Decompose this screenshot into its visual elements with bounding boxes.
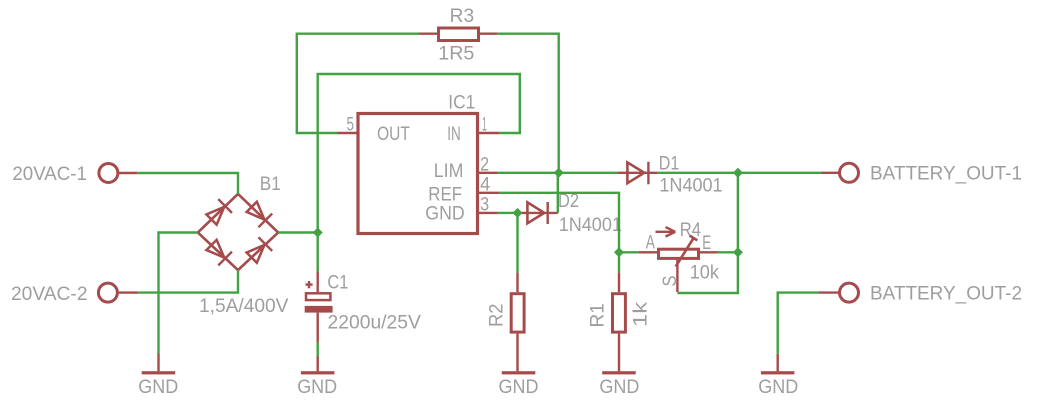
wire IN loop to bridge output <box>318 74 520 272</box>
svg-text:C1: C1 <box>327 273 348 294</box>
svg-text:LIM: LIM <box>434 161 464 182</box>
svg-text:GND: GND <box>499 377 539 398</box>
capacitor C1 plus sign <box>306 281 313 288</box>
pin stub C1 bottom <box>317 313 319 342</box>
wire BATTERY_OUT-2 to GND <box>778 293 819 354</box>
diode D1 triangle <box>627 162 644 183</box>
potentiometer R4 arrow <box>656 231 674 233</box>
pin stub R1 bottom <box>618 334 620 372</box>
pin stub R3 right <box>480 33 497 35</box>
node junction REF/R4-A/R1 <box>614 247 624 257</box>
pin stub R4 S wiper <box>676 260 678 292</box>
wire LIM to D1 <box>497 172 617 174</box>
pin stub BATTERY_OUT-1 <box>821 172 839 174</box>
diode D2 cathode bar <box>547 202 549 224</box>
pin stub IC1 pin4 REF <box>479 192 500 194</box>
ground symbol 3 bar <box>502 371 536 374</box>
pin stub IC1 pin3 GND <box>479 212 498 214</box>
svg-text:GND: GND <box>425 204 464 225</box>
svg-text:BATTERY_OUT-2: BATTERY_OUT-2 <box>870 283 1022 304</box>
svg-text:R1: R1 <box>588 303 609 327</box>
ground symbol 1 stub <box>157 354 159 372</box>
svg-text:E: E <box>702 233 711 254</box>
node junction LIM/R3/D1/D2 <box>554 168 564 178</box>
svg-text:IN: IN <box>447 124 461 145</box>
diode D1 cathode bar <box>647 162 649 185</box>
pin stub 20VAC-1 <box>119 172 137 174</box>
node junction R4-E/S <box>733 247 743 257</box>
bridge B1 diode bottom-right <box>245 237 272 264</box>
pin stub R2 top <box>516 273 518 293</box>
diode D2 wire <box>521 212 558 214</box>
capacitor C1 top plate <box>306 293 330 300</box>
wire R3 loop left <box>297 34 419 133</box>
bridge B1 diode top-right <box>245 200 272 227</box>
ground symbol 1 bar <box>142 371 176 374</box>
bridge B1 diode bottom-left <box>205 238 232 265</box>
connector pad BATTERY_OUT-2 <box>840 283 859 302</box>
wire REF to R4 A node <box>499 193 619 253</box>
wire bridge output to node <box>278 231 318 233</box>
diode D1 wire <box>617 172 657 174</box>
ground symbol 2 bar <box>301 371 335 374</box>
svg-text:20VAC-1: 20VAC-1 <box>12 164 87 185</box>
connector pad 20VAC-1 <box>99 164 118 183</box>
node junction bridge/IN/C1 <box>313 227 323 237</box>
svg-text:1N4001: 1N4001 <box>659 175 722 196</box>
capacitor C1 bottom plate <box>305 306 333 313</box>
pin stub 20VAC-2 <box>119 291 139 293</box>
node junction D1 output <box>733 168 743 178</box>
wire node to R2 <box>516 213 518 273</box>
potentiometer R4 slot tick <box>690 236 698 241</box>
svg-text:2200u/25V: 2200u/25V <box>328 312 422 333</box>
potentiometer R4 body <box>659 249 699 258</box>
pin stub R3 left <box>419 33 437 35</box>
pin stub R4 A <box>638 251 657 253</box>
svg-text:GND: GND <box>758 377 798 398</box>
ground symbol 5 stub <box>777 354 779 372</box>
bridge B1 diode top-left <box>205 199 232 226</box>
svg-text:R2: R2 <box>487 304 508 328</box>
pin stub IC1 pin2 LIM <box>479 172 498 174</box>
svg-text:R3: R3 <box>450 6 474 27</box>
svg-text:1R5: 1R5 <box>438 44 474 65</box>
wire node to R4 A <box>619 251 638 253</box>
svg-text:D1: D1 <box>659 154 680 175</box>
wire 20VAC-2 to bridge bottom <box>138 270 238 293</box>
svg-text:B1: B1 <box>260 174 281 195</box>
pin stub IC1 pin1 IN <box>479 132 500 134</box>
wire node to R4 E column <box>737 173 739 253</box>
svg-text:GND: GND <box>138 377 178 398</box>
svg-text:OUT: OUT <box>377 124 410 145</box>
pin stub C1 top <box>317 272 319 293</box>
diode D2 triangle <box>527 202 544 223</box>
svg-text:REF: REF <box>428 184 462 205</box>
pin stub IC1 pin5 OUT <box>337 132 357 134</box>
potentiometer R4 wiper diagonal <box>676 238 694 267</box>
svg-text:1k: 1k <box>630 301 651 327</box>
pin stub R1 top <box>618 273 620 293</box>
wire GND pin to D2 <box>497 212 521 214</box>
svg-text:BATTERY_OUT-1: BATTERY_OUT-1 <box>870 164 1022 185</box>
svg-text:1N4001: 1N4001 <box>559 215 622 236</box>
svg-text:10k: 10k <box>690 263 720 284</box>
ground symbol 4 bar <box>602 371 636 374</box>
resistor R2 body <box>511 294 524 332</box>
svg-text:1,5A/400V: 1,5A/400V <box>199 296 289 317</box>
connector pad BATTERY_OUT-1 <box>840 163 859 182</box>
resistor R1 body <box>613 294 626 332</box>
svg-text:IC1: IC1 <box>448 92 475 113</box>
node junction GND pin/D2/R2 <box>512 208 522 218</box>
pin stub BATTERY_OUT-2 <box>819 291 839 293</box>
wire 20VAC-1 to bridge top <box>137 173 238 194</box>
connector pad 20VAC-2 <box>98 283 117 302</box>
ground symbol 2 stub <box>317 356 319 371</box>
svg-text:R4: R4 <box>680 220 702 241</box>
ground symbol 5 bar <box>761 371 795 374</box>
svg-text:GND: GND <box>599 377 639 398</box>
wire R3 right to LIM junction <box>497 34 559 173</box>
wire R4 E to node <box>718 251 738 253</box>
wire R4 S loop <box>677 252 738 293</box>
wire D1 to BATTERY_OUT-1 <box>658 172 821 174</box>
wire D2 cathode to LIM junction <box>557 173 559 213</box>
bridge B1 diamond <box>198 194 278 270</box>
svg-text:A: A <box>646 233 655 254</box>
svg-text:GND: GND <box>297 377 337 398</box>
wire C1 to GND <box>317 342 319 356</box>
wire node to R1 <box>618 252 620 272</box>
svg-text:20VAC-2: 20VAC-2 <box>11 284 88 305</box>
wire bridge left to GND <box>159 233 198 354</box>
pin stub R4 E <box>700 251 718 253</box>
resistor R3 body <box>439 28 479 41</box>
pin stub R2 bottom <box>516 334 518 372</box>
op-amp IC1 box <box>358 114 478 234</box>
